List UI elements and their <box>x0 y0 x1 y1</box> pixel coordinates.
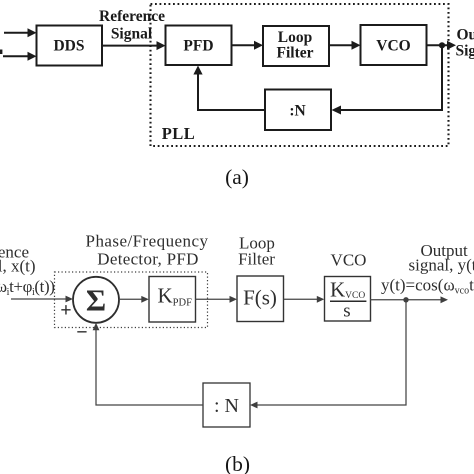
wire feedback down right side to :N <box>257 300 407 405</box>
wire DDS to PFD <box>102 45 158 47</box>
svg-text:Filter: Filter <box>276 45 313 62</box>
block DDS <box>37 26 103 66</box>
wire input 1 to DDS <box>4 32 29 34</box>
svg-text:DDS: DDS <box>53 38 84 55</box>
svg-text:Σ: Σ <box>86 283 106 318</box>
arrowhead K_PDF to F(s) <box>230 296 238 303</box>
svg-text:Loop: Loop <box>278 29 312 46</box>
summer circle <box>73 277 119 323</box>
svg-text:−: − <box>76 322 87 344</box>
wire PFD to Loop Filter <box>232 44 257 46</box>
arrowhead into :N right side <box>250 402 258 409</box>
block Loop Filter <box>263 26 329 66</box>
arrowhead PFD to Loop Filter <box>254 41 263 50</box>
wire K_PDF to F(s) <box>196 298 231 300</box>
junction node at output <box>403 297 408 302</box>
wire input 2 to DDS <box>3 55 29 57</box>
arrowhead F(s) to Kvco/s <box>317 296 325 303</box>
arrowhead output <box>441 296 449 303</box>
svg-text:Signal: Signal <box>111 26 153 43</box>
svg-text:Signal: Signal <box>456 42 474 59</box>
svg-text:Output: Output <box>457 27 474 44</box>
svg-text:Filter: Filter <box>238 250 275 269</box>
svg-text:Detector, PFD: Detector, PFD <box>97 250 198 269</box>
wire VCO to output <box>427 44 449 46</box>
svg-text:x(t)=cos(ωit+φi(t)): x(t)=cos(ωit+φi(t)) <box>0 277 55 298</box>
svg-text:+: + <box>60 300 71 322</box>
wire summer to K_PDF <box>119 298 143 300</box>
svg-text:(a): (a) <box>225 165 249 189</box>
wire :N back up to PFD <box>198 72 265 110</box>
svg-text:PFD: PFD <box>183 38 213 55</box>
svg-text:Reference: Reference <box>99 8 165 25</box>
arrowhead into summer left <box>66 296 74 303</box>
block K_PDF <box>149 277 196 323</box>
wire feedback down from output node to :N <box>339 45 442 110</box>
svg-text:signal, y(t): signal, y(t) <box>409 256 474 275</box>
block F(s) <box>237 276 284 322</box>
wire :N to left riser up into summer <box>96 330 203 405</box>
dotted Phase/Frequency Detector box <box>55 272 208 328</box>
block VCO <box>361 25 427 65</box>
wire input into summer <box>11 298 67 300</box>
wire Kvco/s to output <box>370 299 442 301</box>
block :N divider <box>203 383 250 427</box>
svg-text::N: :N <box>289 103 305 120</box>
block PFD <box>166 26 232 66</box>
fraction bar in Kvco/s <box>330 300 366 302</box>
svg-text:: N: : N <box>214 395 239 417</box>
svg-text:(b): (b) <box>225 452 250 474</box>
junction node at VCO output <box>439 42 445 48</box>
arrowhead Loop Filter to VCO <box>352 41 361 50</box>
wire F(s) to Kvco/s <box>284 298 318 300</box>
dashed PLL boundary box <box>151 4 449 146</box>
svg-text:Phase/Frequency: Phase/Frequency <box>86 232 209 251</box>
arrowhead output <box>447 41 456 50</box>
arrowhead DDS to PFD <box>157 41 166 50</box>
svg-text:F(s): F(s) <box>243 286 277 310</box>
arrowhead feedback up into summer bottom <box>93 323 100 331</box>
svg-text:VCO: VCO <box>376 37 410 54</box>
arrowhead input 1 <box>28 28 37 37</box>
arrowhead input 2 <box>28 52 37 61</box>
stray mark (clipped text) at left edge <box>0 50 2 55</box>
block :N divider <box>265 90 331 131</box>
arrowhead summer to K_PDF <box>141 296 149 303</box>
svg-text:PLL: PLL <box>162 124 196 143</box>
svg-text:s: s <box>343 301 350 322</box>
svg-text:VCO: VCO <box>331 251 367 270</box>
block Kvco/s <box>325 277 371 322</box>
svg-text:signal, x(t): signal, x(t) <box>0 257 36 276</box>
arrowhead feedback into PFD bottom <box>193 66 202 75</box>
wire Loop Filter to VCO <box>329 44 354 46</box>
arrowhead into :N right side <box>332 106 342 115</box>
